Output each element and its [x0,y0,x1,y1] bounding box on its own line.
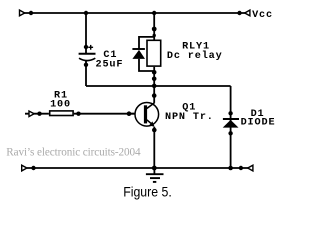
svg-text:100: 100 [50,100,71,111]
svg-text:Dc relay: Dc relay [167,50,223,62]
svg-text:Figure 5.: Figure 5. [123,184,172,200]
svg-text:Vcc: Vcc [252,10,273,21]
svg-text:DIODE: DIODE [241,118,276,129]
svg-text:Ravi’s electronic circuits-200: Ravi’s electronic circuits-2004 [6,146,141,158]
svg-text:25uF: 25uF [96,59,124,70]
svg-text:NPN Tr.: NPN Tr. [165,112,214,123]
